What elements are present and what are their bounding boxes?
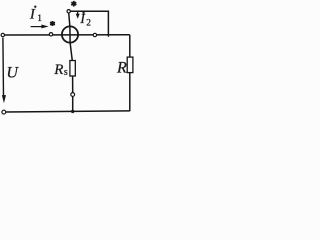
svg-text:1: 1 bbox=[37, 13, 42, 23]
resistor R bbox=[127, 57, 133, 73]
wire: right branch top lead bbox=[129, 35, 131, 58]
wire: main top horizontal from left terminal through circle to right corner bbox=[4, 34, 130, 36]
svg-text:s: s bbox=[64, 67, 68, 78]
node: small open circle on right wire bbox=[93, 33, 96, 36]
wire: right branch bottom lead bbox=[129, 73, 131, 112]
voltage arrow U: head bbox=[2, 95, 6, 103]
wire: top branch from top terminal right then down to junction bbox=[70, 11, 108, 37]
terminal: top open circle bbox=[67, 10, 70, 13]
wire: bottom horizontal bbox=[6, 111, 130, 112]
wire: Rs branch to bottom wire bbox=[72, 96, 74, 112]
current arrow I1: shaft bbox=[31, 26, 43, 28]
voltage arrow U: shaft bbox=[2, 38, 5, 97]
current arrow I1: head bbox=[41, 25, 48, 29]
coupling circle (source symbol) bbox=[62, 26, 78, 42]
svg-text:I: I bbox=[29, 7, 36, 23]
svg-text:R: R bbox=[116, 59, 127, 76]
node: open circle in Rs branch bbox=[71, 93, 75, 97]
svg-text:U: U bbox=[6, 65, 19, 82]
junction dot: Rs branch at bottom wire bbox=[71, 110, 74, 113]
current arrow I2: shaft bbox=[77, 12, 79, 15]
node: small open circle on left wire bbox=[49, 33, 52, 36]
wire: Rs bottom lead bbox=[72, 76, 74, 93]
wire: vertical through coupling circle down to Rs bbox=[69, 13, 73, 61]
current arrow I2: head bbox=[76, 14, 80, 19]
svg-text:2: 2 bbox=[86, 19, 91, 29]
polarity star top bbox=[71, 1, 76, 7]
terminal: left top open circle bbox=[1, 33, 4, 36]
svg-text:R: R bbox=[53, 62, 63, 78]
terminal: left bottom open circle bbox=[2, 110, 6, 114]
polarity star left bbox=[50, 21, 55, 26]
resistor Rs bbox=[70, 61, 75, 77]
